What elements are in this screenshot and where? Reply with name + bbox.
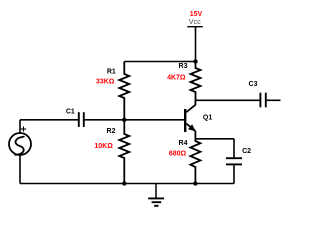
svg-text:10KΩ: 10KΩ (94, 143, 113, 150)
value 10KΩ (94, 143, 113, 150)
value 680Ω (169, 150, 187, 157)
wire base node to Q1 base (124, 119, 184, 121)
junction R4 bottom (193, 181, 197, 185)
wire C2 top vertical (233, 139, 235, 158)
AC source V1 (9, 133, 31, 155)
wire source top vertical (19, 120, 21, 134)
resistor R3 (191, 62, 201, 101)
label C1 (66, 108, 75, 115)
wire source to C1 (20, 119, 78, 121)
label R4 (179, 140, 188, 147)
label Q1 (203, 114, 212, 121)
wire C3 output stub (267, 99, 281, 101)
transistor Q1 (185, 100, 195, 141)
junction Vcc node (193, 59, 197, 63)
wire collector to C3 (195, 99, 259, 101)
capacitor C1 (79, 112, 84, 127)
value 33KΩ (96, 79, 115, 86)
label R2 (107, 128, 116, 135)
svg-text:R1: R1 (107, 68, 116, 75)
wire C1 to base node (85, 119, 125, 121)
svg-text:Q1: Q1 (203, 114, 212, 121)
wire source bottom vertical (19, 155, 21, 184)
svg-text:C2: C2 (242, 148, 251, 155)
ground (148, 184, 164, 206)
junction base node (122, 118, 126, 122)
resistor R4 (190, 139, 200, 184)
wire top rail R1 to Vcc (124, 61, 195, 63)
value 4K7Ω (167, 74, 186, 81)
wire emitter branch to C2 (195, 138, 234, 140)
wire C2 bottom vertical (233, 165, 235, 183)
capacitor C2 (226, 158, 242, 164)
wire Vcc vertical (195, 27, 197, 62)
polarity + sign (21, 126, 26, 131)
label R1 (107, 68, 116, 75)
svg-text:R3: R3 (179, 63, 188, 70)
Vcc supply bar (187, 26, 203, 28)
svg-text:Vcc: Vcc (189, 17, 201, 26)
svg-text:C3: C3 (249, 81, 258, 88)
label 15V (190, 11, 203, 18)
svg-text:4K7Ω: 4K7Ω (167, 74, 186, 81)
svg-text:R2: R2 (107, 128, 116, 135)
label C3 (249, 81, 258, 88)
svg-text:33KΩ: 33KΩ (96, 79, 115, 86)
capacitor C3 (260, 93, 265, 108)
resistor R2 (119, 120, 129, 184)
label C2 (242, 148, 251, 155)
svg-text:R4: R4 (179, 140, 188, 147)
label R3 (179, 63, 188, 70)
svg-text:C1: C1 (66, 108, 75, 115)
svg-text:680Ω: 680Ω (169, 150, 187, 157)
node Vcc label (189, 17, 201, 26)
resistor R1 (119, 62, 129, 120)
junction R2 bottom (122, 181, 126, 185)
wire bottom rail (20, 183, 234, 185)
